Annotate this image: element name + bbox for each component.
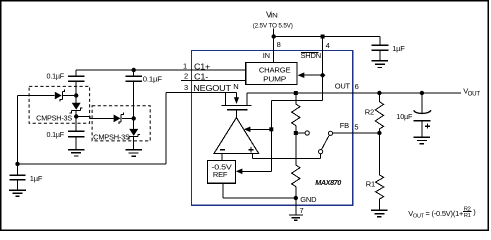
resistor internal bottom (292, 133, 300, 198)
ground under C6 (9, 190, 26, 196)
label output formula (408, 206, 476, 219)
junction R2/R1/FB (377, 131, 381, 135)
svg-text:): ) (473, 207, 476, 216)
wire pin3 NEGOUT (18, 93, 237, 164)
svg-text:OUT: OUT (335, 82, 351, 91)
svg-text:1µF: 1µF (392, 44, 405, 53)
junction negout rail / C6 (15, 162, 19, 166)
svg-text:6: 6 (355, 82, 359, 91)
svg-text:5: 5 (354, 123, 358, 132)
wire pin1 C1+ (76, 70, 246, 76)
capacitor C2 0.1uF lower-left (68, 117, 85, 150)
svg-text:= (-0.5V)(1+: = (-0.5V)(1+ (426, 209, 464, 218)
capacitor C3 0.1uF top-middle (125, 70, 142, 118)
diode D3 CMPSH-3S (114, 113, 132, 125)
capacitor C1 0.1uF top-left (68, 76, 85, 81)
svg-text:CHARGE: CHARGE (259, 65, 291, 74)
junction OUT/R2 (377, 91, 381, 95)
svg-text:R1: R1 (464, 213, 471, 219)
junction internal divider top (294, 91, 298, 95)
capacitor C6 1uF left (9, 164, 25, 190)
svg-text:FB: FB (340, 121, 349, 130)
capacitor C8 10uF output (414, 93, 431, 137)
wire stage link with jog (76, 117, 113, 119)
svg-text:GND: GND (300, 195, 317, 204)
junction divider tap (294, 131, 298, 135)
ground under C8 (414, 137, 431, 143)
diode D4 CMPSH-3S (127, 118, 140, 149)
junction SHDN-charge-pump diamond (320, 72, 326, 78)
wire VIN rail (274, 36, 380, 38)
svg-text:4: 4 (326, 41, 330, 50)
svg-text:1µF: 1µF (30, 174, 43, 183)
svg-text:CMPSH-3S: CMPSH-3S (36, 116, 72, 123)
svg-text:CMPSH-3S: CMPSH-3S (93, 135, 130, 142)
dashed package CMPSH-3S box1 (29, 86, 90, 123)
node VIN stem (273, 29, 275, 37)
junction SHDN rail node (321, 35, 325, 39)
wire op-amp plus input (252, 153, 320, 158)
svg-text:7: 7 (300, 206, 304, 215)
wire pin4 SHDN drop (271, 37, 322, 172)
diode D1 CMPSH-3S (55, 90, 74, 102)
svg-text:0.1µF: 0.1µF (47, 71, 65, 80)
ref block -0.5V REF (208, 160, 236, 183)
ground under R1 (371, 210, 388, 216)
charge pump block U1 (246, 62, 297, 84)
IC box MAX870 (192, 51, 353, 206)
svg-text:OUT: OUT (468, 92, 481, 98)
resistor R2 (375, 93, 383, 133)
svg-text:MAX870: MAX870 (315, 178, 341, 187)
svg-text:IN: IN (263, 51, 270, 60)
svg-text:3: 3 (184, 83, 188, 92)
resistor R1 (376, 133, 384, 210)
svg-text:OUT: OUT (413, 214, 425, 220)
svg-text:REF: REF (213, 170, 228, 179)
svg-text:C1+: C1+ (194, 62, 211, 71)
wire D1 anode rail (18, 96, 55, 164)
svg-text:1: 1 (183, 61, 187, 70)
junction pin1/C3 (132, 68, 136, 72)
wire OUT row pin6 (247, 92, 461, 94)
svg-text:8: 8 (277, 40, 281, 49)
svg-text:10µF: 10µF (396, 112, 412, 121)
ground under D4 (125, 150, 142, 156)
wire pin8 IN drop (273, 37, 275, 63)
wire arrow into op-amp (250, 128, 272, 130)
svg-text:2: 2 (184, 71, 188, 80)
resistor internal top (292, 93, 300, 133)
svg-text:(2.5V TO 5.5V): (2.5V TO 5.5V) (253, 23, 293, 30)
wire pin2 C1- stub (181, 80, 246, 82)
switch arm (322, 136, 330, 150)
dashed package CMPSH-3S box2 (92, 106, 150, 141)
svg-text:R2: R2 (365, 107, 374, 116)
svg-text:C1-: C1- (194, 73, 209, 82)
junction VIN node (272, 34, 276, 38)
svg-text:0.1µF: 0.1µF (47, 130, 65, 139)
wire op-amp minus input (221, 153, 223, 160)
svg-text:IN: IN (270, 14, 277, 20)
junction D1 cathode node (74, 93, 78, 97)
switch contact A (305, 131, 309, 135)
svg-text:NEGOUT: NEGOUT (193, 84, 231, 93)
switch contact B (328, 131, 332, 135)
junction op-amp control node (269, 127, 273, 131)
wire shdn-to-pump arrow (304, 74, 323, 76)
svg-text:0.1µF: 0.1µF (143, 74, 163, 83)
capacitor C7 1uF input (372, 37, 389, 61)
ground under C2 (68, 150, 85, 156)
wire ref to gnd (223, 183, 296, 198)
junction D3 cathode node (132, 116, 136, 120)
junction GND node (294, 196, 298, 200)
ground pin7 earth (289, 215, 303, 220)
junction D2 cathode node (74, 114, 78, 118)
wire tap stub (296, 132, 305, 134)
svg-text:R1: R1 (366, 180, 375, 189)
diode D2 CMPSH-3S (70, 96, 83, 117)
svg-text:N: N (233, 82, 238, 91)
ground under C7 (372, 61, 389, 68)
junction OUT/C8 (420, 91, 424, 95)
wire arrow into ref (241, 170, 271, 172)
op-amp U2 (214, 118, 259, 154)
wire FB row pin5 (333, 132, 380, 134)
transistor Q1 N-FET (222, 93, 252, 118)
wire pin7 gnd drop (295, 198, 297, 215)
switch contact C (319, 150, 323, 154)
svg-text:PUMP: PUMP (263, 75, 286, 84)
